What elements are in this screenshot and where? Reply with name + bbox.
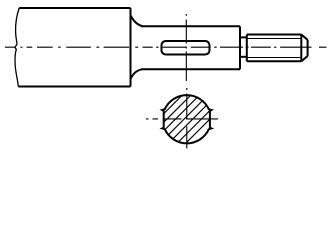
chamfer top slant [301,35,307,40]
top fillet (shoulder to middle section) [131,16,143,27]
large section bottom edge [18,86,130,88]
chamfer bottom slant [301,56,307,61]
middle section right face [239,26,241,69]
middle section bottom edge [141,68,240,70]
keyway slot [162,41,210,55]
shoulder face (large section right face) [130,8,132,87]
middle section top edge [141,25,240,27]
thread start face [246,35,248,62]
section outline with keyway notches [162,95,211,143]
bottom fillet (shoulder to middle section) [131,69,143,79]
shaft end face [307,40,309,56]
thread major diameter bottom [247,60,301,62]
section view vertical centerline [186,88,188,149]
section view horizontal centerline [146,118,218,120]
undercut groove bottom line [240,56,247,58]
vertical centerline through keyway (front view) [185,14,187,81]
horizontal centerline (shaft axis) [5,46,327,48]
thread minor diameter bottom (thin) [247,57,301,59]
chamfer start line [300,35,302,62]
thread minor diameter top (thin) [247,38,301,40]
section hatching (45 degrees) [126,87,242,151]
undercut groove top line [240,36,247,38]
large section top edge [19,7,130,9]
break line (left end of large shaft section) [15,8,19,87]
thread major diameter top [247,34,301,36]
